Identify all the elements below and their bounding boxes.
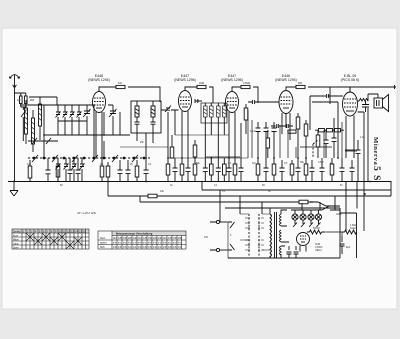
antenna selector LW <box>15 93 23 104</box>
svg-text:110: 110 <box>138 237 142 240</box>
resistor R-g3 <box>241 85 250 88</box>
svg-text:25n: 25n <box>140 141 145 144</box>
electrolytic cap 1 <box>287 246 292 258</box>
bus B4 stepped <box>140 202 340 206</box>
resistor Rb13 <box>304 158 308 182</box>
mains leads <box>210 222 216 250</box>
bottom component row <box>56 158 354 182</box>
wire oscillator drops <box>168 110 175 158</box>
resistor 50k horizontal <box>288 130 296 133</box>
mains switch <box>322 206 340 214</box>
capacitor bottom left <box>46 158 51 182</box>
svg-text:8μF: 8μF <box>346 246 351 249</box>
ground bus <box>8 181 392 183</box>
svg-text:125: 125 <box>118 237 123 240</box>
resistor Rb8 <box>223 158 227 182</box>
wire speaker down <box>368 101 378 182</box>
svg-text:125: 125 <box>168 237 173 240</box>
coupling cap C5 <box>195 99 202 103</box>
cap Cb18 <box>350 160 355 182</box>
cap C-right1 <box>324 130 329 158</box>
svg-text:AM.6: AM.6 <box>336 213 342 216</box>
svg-text:110: 110 <box>163 237 167 240</box>
coil L3 <box>39 97 42 140</box>
svg-text:1M: 1M <box>252 162 255 165</box>
svg-text:220: 220 <box>128 237 133 240</box>
power block right frame <box>330 213 357 258</box>
svg-text:5 S: 5 S <box>371 166 381 181</box>
IF transformer 1 box <box>131 101 161 133</box>
cap C-right2 <box>332 118 337 158</box>
transformer secondary 3 <box>280 246 282 255</box>
svg-text:110: 110 <box>113 237 117 240</box>
svg-text:(PICS 08 K): (PICS 08 K) <box>341 78 360 82</box>
resistor Rb5 <box>180 158 184 182</box>
cap Cb2 <box>76 158 81 182</box>
svg-text:(NEWS 1296): (NEWS 1296) <box>221 78 243 82</box>
tube V5 output <box>343 92 358 150</box>
table 2 frame <box>98 231 186 249</box>
resistor zigzag R-bleed <box>342 230 357 234</box>
svg-text:125: 125 <box>143 237 148 240</box>
cap Cb12 <box>264 158 269 182</box>
wire grid-cap stage 3 <box>232 87 258 103</box>
svg-text:(NEWS 1296): (NEWS 1296) <box>174 78 196 82</box>
wire top cap output tube <box>330 87 350 92</box>
cap Cb17 <box>340 158 345 182</box>
transformer secondary 2 <box>280 230 282 242</box>
resistor Rb4 <box>166 158 170 182</box>
svg-text:5watt: 5watt <box>350 227 356 230</box>
svg-text:0,5MΩ: 0,5MΩ <box>243 82 250 85</box>
mains terminal lower <box>216 248 227 251</box>
wire grid-cap stage 1 <box>99 87 160 102</box>
cap Cb16 <box>320 158 325 182</box>
resistor Rb14 <box>330 158 334 182</box>
cap 8uF <box>340 236 345 254</box>
wire rect output <box>326 232 342 236</box>
wire to V2 grid <box>161 109 179 111</box>
resistor R-osc <box>170 135 174 159</box>
svg-text:Lang: Lang <box>13 242 19 245</box>
wire mid-left verticals <box>94 105 104 158</box>
resistor R-g4 <box>296 85 305 88</box>
cap Cb13 <box>280 160 285 182</box>
wire power internals <box>228 214 270 258</box>
variable capacitor C-tune2 <box>109 105 117 135</box>
IF transformer 2 <box>201 103 227 123</box>
wire drops to power unit <box>220 182 357 232</box>
wire mid horizontals <box>120 147 248 158</box>
cap Cb15 <box>310 160 315 182</box>
voltage selector arrow 2 <box>228 244 235 250</box>
svg-text:spann.: spann. <box>100 241 108 244</box>
transformer secondary 1 <box>280 214 282 226</box>
svg-text:150: 150 <box>173 237 178 240</box>
trimmer bank upper <box>56 105 82 135</box>
wire det to V4 <box>259 101 279 103</box>
resistor Rb10 <box>256 158 260 182</box>
junction dots <box>13 104 371 195</box>
tube V3 <box>226 92 239 141</box>
wire right verticals <box>312 102 338 158</box>
svg-text:808: 808 <box>298 82 303 85</box>
switch arrows mid-left <box>32 138 51 144</box>
dial lamp 4 <box>315 210 321 227</box>
svg-text:240: 240 <box>133 237 138 240</box>
svg-text:Minerva: Minerva <box>372 137 379 165</box>
wire IFT1 out <box>137 133 153 158</box>
resistor Rb12 <box>290 160 294 182</box>
svg-text:1MΩ: 1MΩ <box>199 82 204 85</box>
wire output tube anode <box>350 87 364 112</box>
switch contact arms <box>32 155 138 162</box>
ground symbol <box>10 182 18 197</box>
wire V2 legs drop <box>182 132 188 158</box>
IFT1 cap a <box>135 122 140 133</box>
transformer leads <box>270 208 289 258</box>
coil L2 <box>32 110 35 152</box>
table 1 frame <box>12 229 89 249</box>
resistor R-k2 <box>193 140 197 158</box>
resistor zigzag R-surge <box>307 230 326 234</box>
resistor Rb2 <box>106 162 110 182</box>
svg-text:MW: MW <box>30 99 35 102</box>
cap Cb5 <box>144 158 149 182</box>
tube V2 <box>179 91 192 137</box>
resistor Rb1 <box>56 158 60 182</box>
trimmer bank lower <box>56 158 85 181</box>
cap Cb11 <box>239 158 244 182</box>
selector contact ticks <box>245 218 264 250</box>
lamp bus <box>291 209 322 211</box>
voltage selector arrow 1 <box>228 222 235 228</box>
antenna <box>9 75 19 89</box>
AVC dashed <box>175 134 229 136</box>
selector dashed column a <box>248 214 250 256</box>
resistor on bus B4 <box>299 200 308 204</box>
svg-text:(NEWS 1294): (NEWS 1294) <box>275 78 297 82</box>
svg-text:Kurz: Kurz <box>13 234 19 237</box>
potentiometer volume <box>313 130 320 158</box>
resistor Rb3 <box>135 160 139 182</box>
svg-text:5x0: 5x0 <box>118 82 123 85</box>
svg-text:47nF: 47nF <box>250 130 256 133</box>
resistor R-g2 <box>197 85 206 88</box>
switch contacts <box>33 157 145 159</box>
band switch dashed line <box>28 157 150 159</box>
dial lamp 3 <box>308 210 314 227</box>
wire grid-cap stage 2 <box>185 87 213 103</box>
dial lamp 2 <box>300 210 306 227</box>
loudspeaker <box>368 94 389 112</box>
svg-text:220: 220 <box>153 237 158 240</box>
resistor Rb6 <box>193 158 197 182</box>
power unit bottom <box>228 257 340 259</box>
cap Cb4 <box>126 160 131 182</box>
IFT2 coil b <box>210 103 214 123</box>
bus B2 <box>202 182 391 197</box>
transformer primary <box>270 214 272 257</box>
cap Cb14 <box>296 158 301 182</box>
trimmer C-osc <box>165 106 171 113</box>
svg-text:(NEU): (NEU) <box>315 249 322 252</box>
V4 cathode caps <box>256 122 277 158</box>
svg-text:4μF: 4μF <box>27 163 32 166</box>
cap Cb6 <box>173 158 178 182</box>
wire bus drops <box>108 182 202 203</box>
resistor R-g1 <box>116 85 125 88</box>
wire mid extra verticals <box>248 110 357 158</box>
field coil zigzag <box>357 99 368 102</box>
caps 0,05uF 50nF <box>271 124 293 128</box>
svg-text:50000: 50000 <box>313 227 320 230</box>
field coil cap <box>362 101 369 112</box>
svg-text:Netzspannungs-Umschaltung: Netzspannungs-Umschaltung <box>116 232 153 236</box>
svg-text:150: 150 <box>123 237 128 240</box>
IFT2 coil a <box>204 103 208 123</box>
tube V1 <box>93 92 106 182</box>
tube V4 <box>279 91 293 141</box>
resistor bottom left <box>28 160 32 182</box>
IFT1 cap b <box>151 122 156 133</box>
variable capacitor C-tune1 <box>83 105 91 135</box>
svg-text:Drehko: Drehko <box>13 230 21 233</box>
antenna selector MW <box>21 93 27 107</box>
IFT1 coil b <box>151 101 155 122</box>
wire <box>108 105 120 135</box>
tone cap C-tone <box>356 140 361 181</box>
selector contacts <box>248 217 260 251</box>
table 1 diagonals <box>26 233 82 249</box>
cap Cb10 <box>227 158 232 182</box>
svg-text:(NEWS 1294): (NEWS 1294) <box>88 78 110 82</box>
resistor R-sc <box>304 120 308 158</box>
coil L1 <box>25 100 28 144</box>
switch S1 <box>21 107 27 141</box>
selector dashed column b <box>258 214 260 256</box>
svg-text:Mittel: Mittel <box>13 238 19 241</box>
wire detector row <box>229 123 241 158</box>
wire antenna down <box>14 88 16 182</box>
cap Cb1 <box>68 158 73 182</box>
micro labels <box>17 82 364 252</box>
cap Cb3 <box>118 160 123 182</box>
IFT2 coil d <box>223 103 227 123</box>
resistor on bus B3 <box>148 194 157 198</box>
wire top right rail <box>336 85 396 89</box>
wire top-left horizontals <box>20 97 130 141</box>
resistor row A <box>315 129 344 132</box>
wire V5 bias <box>346 138 354 158</box>
table micro text <box>13 230 183 249</box>
svg-text:Sich.: Sich. <box>100 246 106 249</box>
wire EB <box>206 156 240 158</box>
IFT1 coil a <box>135 101 139 122</box>
coupling cap C-det <box>248 100 259 104</box>
cap Cb8 <box>203 158 208 182</box>
svg-text:0,5M: 0,5M <box>318 161 323 164</box>
resistor R-det <box>244 104 248 134</box>
bus B3 <box>108 195 391 197</box>
wires IFT2 drops <box>205 123 224 158</box>
wire grid-cap stage 4 <box>286 87 330 104</box>
IFT2 coil c <box>217 103 221 123</box>
resistor Rb11 <box>272 158 276 182</box>
rectifier tube <box>297 233 310 252</box>
resistor Rb9 <box>233 158 237 182</box>
wire left verticals <box>44 97 57 135</box>
wire B+ vertical <box>363 112 365 231</box>
resistor R-a4 <box>296 113 300 158</box>
coupling cap to output grid <box>310 94 343 130</box>
transformer core <box>275 212 277 258</box>
svg-text:240: 240 <box>158 237 163 240</box>
mains terminal upper <box>216 220 227 223</box>
resistor 31k vertical <box>266 130 270 158</box>
electrolytic cap 2 <box>294 246 299 258</box>
resistor Rb7 <box>210 158 214 182</box>
dial lamp 1 <box>292 210 298 227</box>
svg-text:220: 220 <box>178 237 183 240</box>
cap Cb9 <box>216 158 221 182</box>
cap Cb7 <box>186 158 191 182</box>
svg-text:150: 150 <box>148 237 153 240</box>
svg-text:Netz-: Netz- <box>100 237 106 240</box>
power unit top line <box>225 208 340 258</box>
svg-text:Sperr: Sperr <box>13 246 19 249</box>
